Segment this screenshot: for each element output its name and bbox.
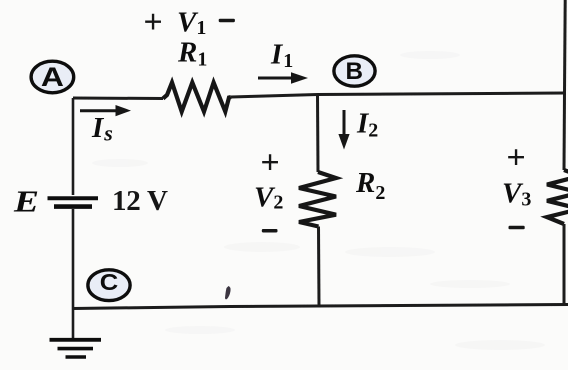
resistor R2 [299,172,336,227]
wire right vertical upper [563,93,567,170]
wire middle vertical upper (B drop) [316,95,320,173]
wire top: A corner to R1 [73,97,163,101]
wire middle vertical lower [317,227,321,307]
label minus V2 [262,229,278,233]
svg-text:12 V: 12 V [112,185,168,217]
wire right vertical lower [563,224,566,304]
svg-text:E: E [13,184,39,219]
label minus V1 [219,19,235,23]
ground bar 1 [50,338,102,342]
current arrow I1 [258,72,308,84]
label minus V3 [509,226,525,230]
wire bottom [73,305,568,309]
wire right vertical above top wire [563,0,567,93]
wire left vertical upper (A to battery) [72,98,75,195]
node B [334,56,375,86]
node A [31,61,74,93]
svg-text:B: B [346,58,364,85]
resistor R3 (clipped at image edge) [547,170,568,224]
svg-text:+: + [506,140,525,177]
svg-text:+: + [143,4,162,41]
current arrow Is [80,105,131,116]
node C [88,269,130,301]
svg-text:C: C [100,269,119,295]
svg-text:+: + [260,144,279,181]
svg-text:A: A [41,62,64,92]
resistor R1 [163,83,231,112]
ground bar 2 [58,347,94,351]
wire left vertical lower (battery to C corner) [72,209,75,308]
battery E plates [48,196,99,200]
current arrow I2 [338,110,349,150]
wire top: R1 to B to right corner [231,93,565,97]
stray ink mark [225,286,231,299]
ground stem [72,308,75,339]
ground bar 3 [66,355,87,358]
